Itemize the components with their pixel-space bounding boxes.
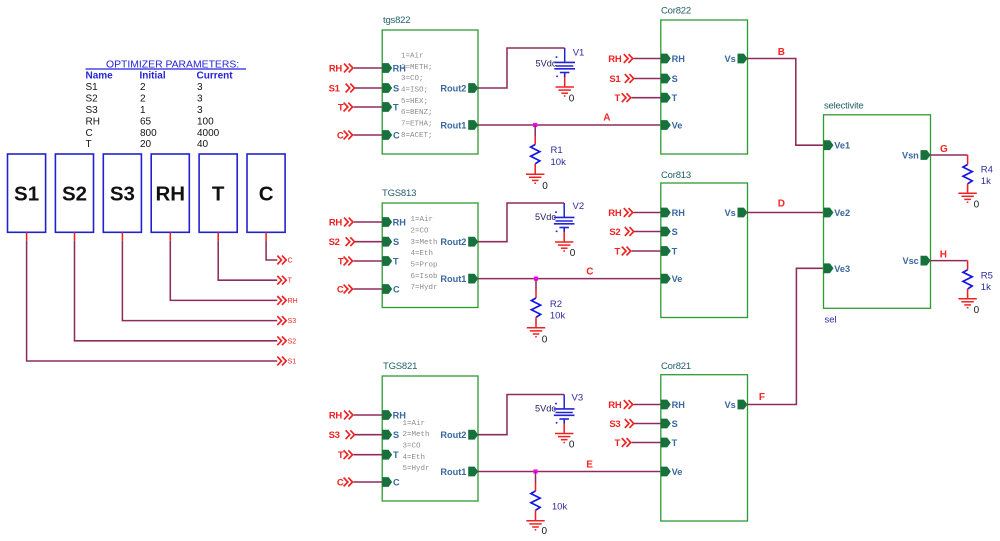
svg-text:S1: S1 — [86, 82, 99, 93]
svg-text:B: B — [778, 47, 785, 58]
wire D from Cor813 Vs to selectivite Ve2 — [748, 212, 824, 214]
svg-text:R4: R4 — [981, 165, 993, 176]
svg-text:S3: S3 — [110, 182, 135, 205]
svg-text:C: C — [393, 131, 400, 141]
svg-text:S3: S3 — [288, 318, 297, 325]
wire C from Rout1 to Cor813 Ve — [478, 278, 661, 280]
svg-text:0: 0 — [974, 199, 980, 210]
wire V2 to ground — [563, 232, 565, 241]
svg-text:65: 65 — [140, 116, 152, 127]
voltage source V3 5Vdc — [535, 392, 583, 423]
svg-text:S2: S2 — [288, 338, 297, 345]
Cor822 pin S — [661, 74, 678, 84]
svg-text:0: 0 — [974, 305, 980, 316]
svg-text:RH: RH — [329, 217, 343, 228]
svg-text:3: 3 — [197, 94, 203, 105]
TGS813 gas list text — [411, 216, 438, 292]
wire G from Vsn to R4 — [931, 154, 968, 156]
off-page connector RH — [277, 296, 297, 305]
ground 0 below R1 — [526, 174, 548, 192]
svg-text:T: T — [393, 257, 399, 267]
wire R4 to ground — [967, 184, 969, 193]
svg-text:RH: RH — [608, 54, 622, 65]
svg-text:20: 20 — [140, 139, 152, 150]
resistor R3 10k — [531, 491, 568, 513]
TGS821 pin C — [382, 477, 400, 487]
svg-text:S1: S1 — [329, 83, 341, 94]
Cor821 pin Ve — [661, 467, 683, 477]
connector RH to tgs822 — [329, 63, 383, 74]
wire Vsc to R5 stub — [967, 261, 969, 270]
svg-text:T: T — [672, 93, 678, 103]
connector T to Cor821 — [614, 438, 661, 449]
svg-text:RH: RH — [329, 410, 343, 421]
svg-text:7=ETHA;: 7=ETHA; — [401, 121, 433, 129]
off-page connector S2 — [277, 336, 296, 345]
off-page connector C — [277, 256, 292, 265]
svg-text:tgs822: tgs822 — [383, 15, 410, 26]
svg-text:Ve2: Ve2 — [834, 208, 850, 218]
svg-text:Ve: Ve — [672, 274, 683, 284]
parameter block T — [199, 154, 237, 232]
svg-text:RH: RH — [672, 400, 686, 410]
Cor822 pin Vs — [725, 54, 748, 64]
wire Rout2 to V1 — [478, 48, 565, 88]
svg-text:5Vdc: 5Vdc — [536, 59, 557, 69]
connector C to TGS821 — [337, 478, 383, 489]
svg-text:S: S — [393, 430, 399, 440]
svg-text:Name: Name — [86, 71, 114, 82]
junction on wire E — [533, 469, 537, 473]
TGS813 pin T — [382, 256, 399, 266]
svg-text:1k: 1k — [981, 176, 991, 187]
svg-text:0: 0 — [570, 248, 576, 259]
svg-text:C: C — [337, 478, 344, 489]
svg-text:2=METH;: 2=METH; — [401, 64, 433, 72]
wire Rout2 to V2 — [478, 203, 564, 242]
connector T to tgs822 — [338, 102, 383, 113]
tgs822 pin Rout1 — [440, 120, 478, 130]
svg-text:40: 40 — [197, 139, 209, 150]
svg-text:Rout2: Rout2 — [440, 84, 466, 94]
wire S1 from block S1 to connector — [27, 232, 278, 361]
svg-text:Rout1: Rout1 — [440, 121, 466, 131]
svg-text:2: 2 — [140, 94, 146, 105]
svg-text:T: T — [338, 102, 344, 113]
connector S3 to Cor821 — [609, 419, 661, 430]
connector S1 to Cor822 — [609, 74, 661, 85]
wire Rout2 to V3 — [478, 395, 564, 435]
wire A from Rout1 to Cor822 Ve — [478, 124, 661, 126]
svg-text:sel: sel — [825, 315, 837, 326]
wire T from block T to connector — [218, 232, 277, 280]
sensor U TGS813 — [382, 188, 478, 308]
svg-text:S: S — [672, 419, 678, 429]
svg-text:Ve3: Ve3 — [834, 264, 850, 274]
selectivite pin Ve1 — [824, 140, 851, 150]
ground 0 below R2 — [527, 328, 548, 345]
TGS821 pin Rout2 — [440, 430, 478, 440]
svg-text:T: T — [614, 438, 620, 449]
table header row — [86, 71, 234, 82]
svg-text:3=CO;: 3=CO; — [401, 75, 424, 83]
TGS813 pin C — [382, 284, 400, 294]
svg-text:R5: R5 — [981, 270, 993, 281]
off-page connector S1 — [277, 357, 296, 366]
Cor822 pin Ve — [661, 120, 683, 130]
svg-text:RH: RH — [672, 208, 686, 218]
svg-text:Cor821: Cor821 — [661, 361, 691, 372]
correction block Cor822 — [661, 6, 748, 155]
ground 0 below R5 — [958, 299, 979, 316]
svg-text:Rout1: Rout1 — [440, 467, 466, 477]
wire E from Rout1 to Cor821 Ve — [478, 471, 661, 473]
ground 0 below R3 — [526, 521, 547, 537]
svg-text:S1: S1 — [14, 182, 39, 205]
Cor813 pin RH — [661, 208, 685, 218]
svg-text:S3: S3 — [329, 430, 340, 441]
off-page connector T — [277, 276, 292, 285]
svg-text:8=ACET;: 8=ACET; — [401, 132, 433, 140]
sensor U TGS821 — [382, 361, 478, 501]
svg-text:Vsn: Vsn — [902, 151, 919, 161]
wire R1 to ground — [534, 164, 536, 174]
Cor813 pin T — [661, 246, 678, 256]
connector RH to Cor813 — [608, 208, 661, 219]
tgs822 pin C — [382, 130, 400, 140]
svg-text:Current: Current — [197, 71, 234, 82]
svg-text:1: 1 — [140, 105, 146, 116]
svg-text:Vs: Vs — [725, 400, 736, 410]
selector block selectivite — [824, 101, 931, 309]
Cor821 pin T — [661, 438, 678, 448]
svg-text:T: T — [393, 450, 399, 460]
resistor R1 10k — [531, 145, 566, 169]
svg-text:V1: V1 — [573, 48, 585, 59]
connector S2 to Cor813 — [609, 227, 661, 238]
connector T to Cor822 — [614, 93, 661, 104]
svg-text:S: S — [393, 84, 399, 94]
wire S3 from block S3 to connector — [122, 232, 277, 320]
ground 0 below V2 — [555, 242, 576, 259]
connector RH to Cor821 — [608, 400, 661, 411]
connector RH to TGS821 — [329, 410, 383, 421]
svg-text:10k: 10k — [552, 502, 568, 513]
svg-text:S2: S2 — [329, 237, 340, 248]
junction on wire C — [534, 277, 538, 281]
svg-text:S1: S1 — [609, 74, 621, 85]
ground 0 below R4 — [958, 193, 979, 210]
svg-text:S: S — [393, 237, 399, 247]
TGS821 pin Rout1 — [440, 467, 478, 477]
svg-text:1=Air: 1=Air — [411, 216, 434, 224]
svg-text:S1: S1 — [288, 359, 297, 366]
svg-text:C: C — [288, 258, 293, 265]
svg-text:0: 0 — [569, 439, 575, 450]
svg-text:V2: V2 — [573, 201, 585, 212]
correction block Cor821 — [661, 361, 748, 521]
Cor813 pin Vs — [725, 208, 748, 218]
svg-text:5Vdc: 5Vdc — [535, 212, 556, 222]
svg-text:T: T — [614, 93, 620, 104]
wire Vsn to R4 stub — [967, 155, 969, 165]
svg-text:6=BENZ;: 6=BENZ; — [401, 109, 433, 117]
TGS813 pin Rout1 — [440, 274, 478, 284]
junction on wire A — [533, 123, 537, 127]
svg-text:0: 0 — [542, 526, 548, 537]
svg-text:1=Air: 1=Air — [403, 420, 426, 428]
svg-text:4=ISO;: 4=ISO; — [401, 87, 428, 95]
svg-text:RH: RH — [86, 116, 100, 127]
Cor821 pin RH — [661, 400, 685, 410]
svg-text:T: T — [393, 103, 399, 113]
TGS813 pin Rout2 — [440, 237, 478, 247]
connector C to tgs822 — [337, 130, 383, 141]
selectivite pin Ve2 — [824, 208, 851, 218]
Cor822 pin RH — [661, 54, 685, 64]
svg-text:Ve1: Ve1 — [834, 141, 850, 151]
wire H from Vsc to R5 — [931, 260, 968, 262]
svg-text:G: G — [940, 144, 948, 155]
svg-text:Initial: Initial — [140, 71, 166, 82]
svg-text:1=Air: 1=Air — [401, 52, 424, 60]
selectivite pin Vsn — [902, 150, 931, 160]
svg-text:6=Isob: 6=Isob — [411, 273, 438, 281]
voltage source V1 5Vdc — [536, 48, 585, 78]
wire RH from block RH to connector — [170, 232, 277, 300]
wire B from Cor822 Vs to selectivite Ve1 — [748, 59, 824, 146]
Cor822 pin T — [661, 93, 678, 103]
connector T to TGS821 — [338, 450, 383, 461]
TGS821 gas list text — [403, 420, 430, 473]
svg-text:2=Meth: 2=Meth — [403, 431, 430, 439]
svg-text:100: 100 — [197, 116, 214, 127]
svg-text:Vsc: Vsc — [902, 256, 918, 266]
connector S1 to tgs822 — [329, 83, 383, 94]
TGS813 pin S — [382, 237, 399, 247]
connector S3 to TGS821 — [329, 430, 383, 441]
svg-text:C: C — [337, 130, 344, 141]
svg-text:E: E — [586, 459, 593, 470]
svg-text:C: C — [259, 182, 274, 205]
wire S2 from block S2 to connector — [75, 232, 278, 340]
svg-text:C: C — [586, 266, 593, 277]
wire C from block C to connector — [266, 232, 277, 260]
svg-text:0: 0 — [569, 94, 575, 105]
Cor821 pin S — [661, 419, 678, 429]
connector RH to Cor822 — [608, 54, 661, 65]
svg-text:3=Meth: 3=Meth — [411, 239, 438, 247]
resistor R4 1k — [963, 165, 993, 188]
parameter block S1 — [8, 154, 46, 232]
svg-text:Cor813: Cor813 — [661, 170, 691, 181]
connector T to Cor813 — [614, 247, 661, 258]
svg-text:2: 2 — [140, 82, 146, 93]
svg-text:Ve: Ve — [672, 121, 683, 131]
svg-text:10k: 10k — [550, 311, 566, 322]
svg-text:S3: S3 — [609, 419, 620, 430]
svg-text:C: C — [337, 284, 344, 295]
svg-text:T: T — [672, 247, 678, 257]
svg-text:RH: RH — [393, 218, 407, 228]
Cor813 pin Ve — [661, 274, 683, 284]
tgs822 pin RH — [382, 63, 406, 73]
svg-text:TGS821: TGS821 — [383, 361, 417, 372]
svg-text:7=Hydr: 7=Hydr — [411, 284, 438, 292]
wire junction to R3 — [535, 472, 537, 492]
svg-text:S: S — [672, 74, 678, 84]
svg-text:T: T — [614, 247, 620, 258]
svg-text:Ve: Ve — [672, 467, 683, 477]
wire V3 to ground — [563, 424, 565, 433]
svg-text:3: 3 — [197, 105, 203, 116]
svg-text:RH: RH — [608, 400, 622, 411]
svg-text:C: C — [393, 285, 400, 295]
svg-text:Rout2: Rout2 — [440, 430, 466, 440]
parameter block S3 — [103, 154, 141, 232]
svg-text:S2: S2 — [86, 94, 99, 105]
svg-text:5Vdc: 5Vdc — [535, 404, 556, 414]
parameter block S2 — [55, 154, 93, 232]
svg-text:4=Eth: 4=Eth — [403, 454, 426, 462]
svg-text:0: 0 — [542, 334, 548, 345]
svg-text:5=HEX;: 5=HEX; — [401, 98, 428, 106]
svg-text:S: S — [672, 227, 678, 237]
svg-text:RH: RH — [329, 63, 343, 74]
sensor U tgs822 — [382, 15, 478, 154]
resistor R2 10k — [531, 298, 565, 322]
svg-text:Rout1: Rout1 — [440, 274, 466, 284]
svg-text:S2: S2 — [609, 227, 620, 238]
parameter block C — [247, 154, 285, 232]
wire R3 to ground — [535, 510, 537, 520]
TGS813 pin RH — [382, 217, 406, 227]
wire V1 to ground — [564, 77, 566, 86]
svg-text:4=Eth: 4=Eth — [411, 250, 434, 258]
tgs822 pin Rout2 — [440, 83, 478, 93]
svg-text:Vs: Vs — [725, 208, 736, 218]
optimizer parameters table title — [86, 60, 247, 71]
svg-text:0: 0 — [542, 181, 548, 192]
TGS821 pin T — [382, 450, 399, 460]
svg-text:5=Hydr: 5=Hydr — [403, 465, 430, 473]
svg-text:10k: 10k — [551, 157, 567, 168]
svg-text:Rout2: Rout2 — [440, 237, 466, 247]
svg-text:RH: RH — [155, 182, 185, 205]
svg-text:R2: R2 — [550, 299, 562, 310]
svg-text:A: A — [603, 113, 610, 124]
wire F from Cor821 Vs to selectivite Ve3 — [748, 268, 824, 404]
parameter block RH — [151, 154, 189, 232]
svg-text:RH: RH — [672, 54, 686, 64]
svg-text:4000: 4000 — [197, 128, 220, 139]
svg-text:S3: S3 — [86, 105, 99, 116]
svg-text:T: T — [288, 278, 293, 285]
TGS821 pin RH — [382, 410, 406, 420]
connector S2 to TGS813 — [329, 237, 383, 248]
svg-text:3=CO: 3=CO — [403, 442, 422, 450]
off-page connector S3 — [277, 316, 296, 325]
svg-text:5=Prop: 5=Prop — [411, 262, 438, 270]
svg-text:800: 800 — [140, 128, 157, 139]
svg-text:Cor822: Cor822 — [661, 6, 691, 17]
wire R2 to ground — [535, 317, 537, 327]
Cor813 pin S — [661, 227, 678, 237]
wire junction to R1 — [534, 125, 536, 145]
svg-text:F: F — [759, 392, 765, 403]
svg-text:T: T — [338, 450, 344, 461]
svg-text:TGS813: TGS813 — [382, 188, 416, 199]
svg-text:1k: 1k — [981, 282, 991, 293]
tgs822 pin T — [382, 102, 399, 112]
svg-text:T: T — [212, 182, 225, 205]
svg-text:Vs: Vs — [725, 54, 736, 64]
svg-text:2=CO: 2=CO — [411, 228, 430, 236]
connector T to TGS813 — [338, 256, 383, 267]
svg-text:T: T — [338, 256, 344, 267]
correction block Cor813 — [661, 170, 748, 318]
ground 0 below V1 — [556, 87, 575, 105]
ground 0 below V3 — [555, 434, 575, 451]
svg-text:T: T — [86, 139, 92, 150]
svg-text:C: C — [86, 128, 93, 139]
connector RH to TGS813 — [329, 217, 383, 228]
wire R5 to ground — [967, 289, 969, 298]
resistor R5 1k — [963, 270, 993, 293]
svg-text:3: 3 — [197, 82, 203, 93]
TGS821 pin S — [382, 430, 399, 440]
svg-text:C: C — [393, 478, 400, 488]
svg-text:RH: RH — [608, 208, 622, 219]
svg-text:R1: R1 — [551, 145, 563, 156]
svg-text:RH: RH — [288, 298, 298, 305]
table data rows — [86, 82, 220, 150]
selectivite pin Ve3 — [824, 263, 851, 273]
tgs822 gas list text — [401, 52, 433, 139]
svg-text:V3: V3 — [572, 392, 584, 403]
voltage source V2 5Vdc — [535, 201, 584, 232]
svg-text:T: T — [672, 438, 678, 448]
Cor821 pin Vs — [725, 400, 748, 410]
svg-text:H: H — [940, 250, 947, 261]
wire junction to R2 — [535, 279, 537, 298]
svg-text:selectivite: selectivite — [824, 101, 864, 112]
selectivite pin Vsc — [902, 256, 930, 266]
svg-text:S2: S2 — [62, 182, 87, 205]
svg-text:D: D — [778, 199, 785, 210]
tgs822 pin S — [382, 83, 399, 93]
connector C to TGS813 — [337, 284, 383, 295]
